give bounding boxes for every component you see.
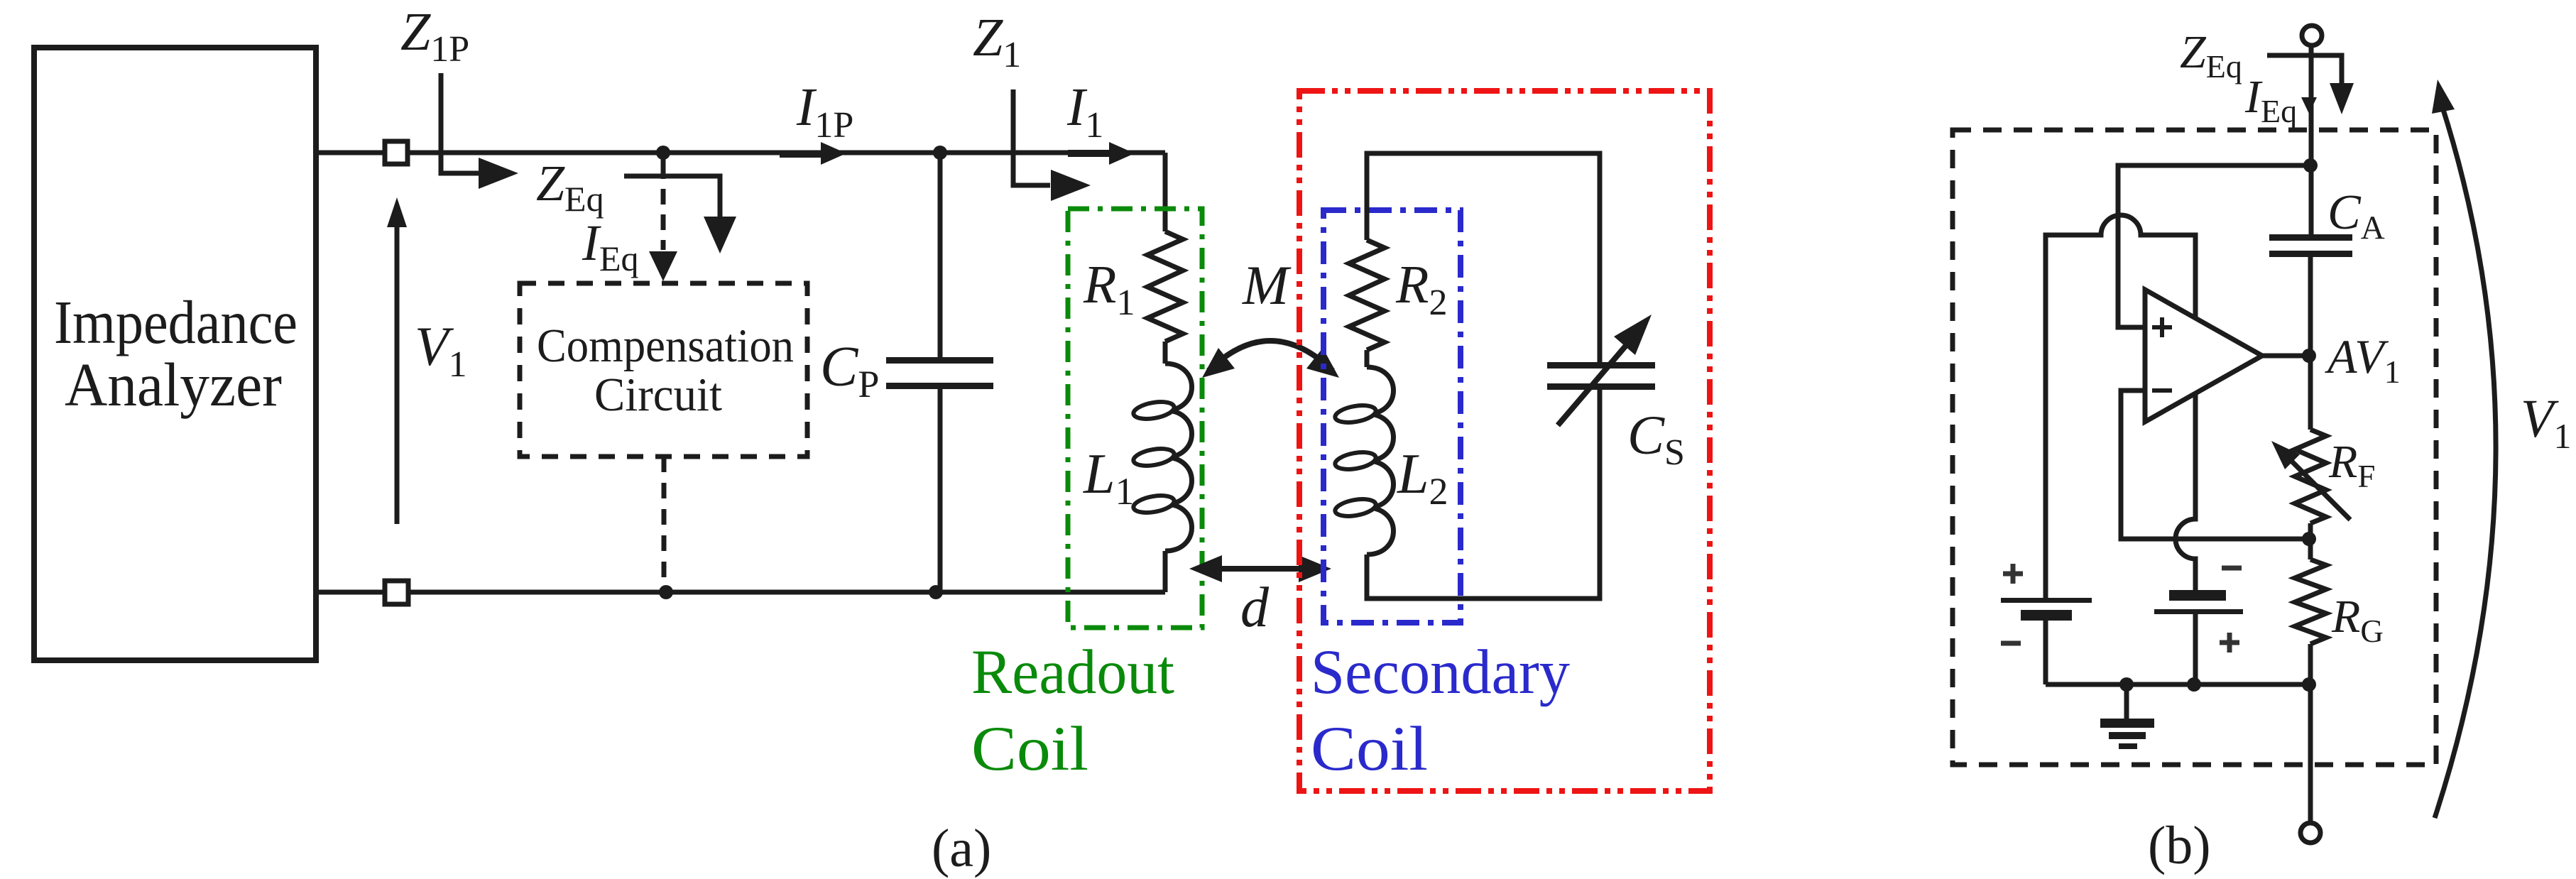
V1 arc (b) — [2435, 105, 2496, 818]
wire top rail — [316, 151, 1165, 155]
bottom rail (b) — [2046, 682, 2310, 687]
IEq dashed arrow (a) — [661, 153, 666, 179]
IEq arrow (b) — [2301, 97, 2317, 114]
compensation dashed stub to bottom rail — [662, 457, 667, 589]
wire R1 to L1 — [1163, 342, 1168, 364]
wire R2 to L2 — [1365, 350, 1370, 367]
secondary red box — [1299, 91, 1710, 791]
svg-text:Impedance: Impedance — [54, 288, 298, 356]
node feedback — [2302, 532, 2316, 546]
svg-text:Analyzer: Analyzer — [65, 350, 282, 419]
(b) dashed box — [1953, 130, 2436, 765]
capacitor CP — [938, 153, 943, 358]
battery B1 — [2001, 598, 2092, 603]
wire top to R1 — [1163, 153, 1168, 231]
svg-text:Coil: Coil — [1311, 714, 1428, 784]
svg-text:d: d — [1240, 577, 1270, 639]
svg-text:Compensation: Compensation — [537, 320, 794, 372]
node top-left junction — [656, 146, 670, 160]
feedback wire minus input — [2121, 391, 2309, 539]
node bottom CP junction — [929, 585, 943, 599]
capacitor CA — [2269, 234, 2352, 241]
connector square bottom — [385, 581, 408, 604]
node output — [2302, 349, 2316, 363]
terminal bottom — [2301, 823, 2320, 843]
wire top terminal down — [2309, 45, 2314, 234]
supply wire bottom with hop — [2176, 392, 2195, 590]
op-amp output wire — [2262, 354, 2310, 359]
resistor R2 — [1349, 240, 1385, 350]
inductor L2 — [1367, 367, 1394, 555]
I1 current arrow — [1068, 150, 1110, 157]
node top CP junction — [933, 146, 947, 160]
Z1P arrow — [441, 73, 480, 173]
resistor R1 — [1147, 231, 1183, 342]
svg-text:Coil: Coil — [971, 714, 1088, 784]
svg-text:M: M — [1242, 254, 1292, 316]
inductor L1 — [1165, 364, 1192, 551]
svg-text:(a): (a) — [932, 819, 991, 878]
wire output to RF — [2308, 356, 2313, 430]
readout coil green box — [1068, 209, 1202, 628]
terminal top — [2302, 26, 2322, 45]
ground — [2124, 684, 2129, 719]
ZEq arrow (a) — [624, 176, 720, 217]
wire node to + input — [2118, 165, 2310, 327]
ZEq arrow (b) — [2267, 55, 2342, 84]
distance arrow d — [1207, 566, 1314, 572]
compensation circuit box — [520, 283, 807, 457]
connector square top — [385, 141, 408, 164]
impedance analyzer box — [34, 48, 316, 660]
V1 arrow — [395, 224, 400, 524]
svg-text:Readout: Readout — [971, 638, 1174, 707]
mutual coupling arc M — [1208, 341, 1333, 371]
wire bottom rail — [316, 590, 1165, 595]
svg-text:Circuit: Circuit — [594, 368, 722, 421]
op-amp U1 — [2145, 290, 2262, 422]
secondary loop wires — [1367, 153, 1600, 362]
node bottom-left junction — [659, 585, 673, 599]
I1P current arrow — [780, 151, 822, 158]
resistor RG — [2295, 559, 2326, 644]
node CA top — [2303, 158, 2318, 173]
resistor RF (variable) — [2295, 430, 2326, 523]
svg-text:Secondary: Secondary — [1311, 638, 1570, 707]
svg-text:(b): (b) — [2148, 816, 2211, 875]
battery B2 — [2169, 590, 2226, 601]
secondary coil blue box — [1324, 210, 1461, 623]
supply wire with hop — [2046, 215, 2195, 600]
capacitor CS (variable) — [1547, 362, 1655, 368]
wire L1 to bottom rail — [1163, 551, 1168, 592]
Z1 arrow — [1013, 89, 1050, 185]
